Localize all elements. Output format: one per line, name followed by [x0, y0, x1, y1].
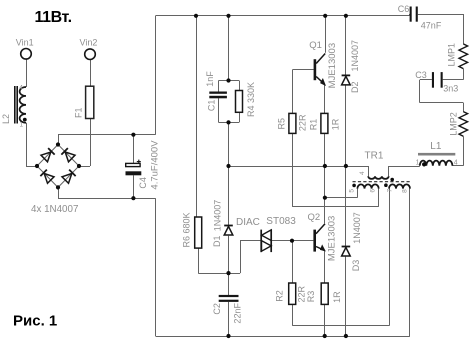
svg-text:4: 4: [454, 160, 458, 167]
svg-text:Рис. 1: Рис. 1: [13, 313, 57, 330]
svg-text:1R: 1R: [332, 291, 342, 303]
svg-text:4: 4: [19, 84, 23, 91]
svg-text:C1: C1: [207, 100, 217, 112]
svg-text:6: 6: [370, 189, 377, 193]
svg-text:R4 330K: R4 330K: [246, 82, 256, 117]
svg-text:D2: D2: [350, 81, 360, 93]
svg-text:11Вт.: 11Вт.: [35, 9, 72, 26]
svg-text:LMP1: LMP1: [446, 43, 456, 67]
svg-text:LMP2: LMP2: [448, 112, 458, 136]
svg-text:3n3: 3n3: [443, 83, 458, 93]
svg-text:1nF: 1nF: [205, 71, 215, 87]
svg-text:L1: L1: [430, 141, 442, 152]
svg-text:R5: R5: [276, 118, 286, 130]
svg-text:R1: R1: [308, 119, 318, 131]
svg-text:R2: R2: [275, 290, 285, 302]
svg-text:Q2: Q2: [308, 212, 321, 223]
svg-text:1: 1: [416, 160, 420, 167]
svg-text:C4: C4: [138, 177, 148, 189]
svg-text:1N4007: 1N4007: [213, 200, 223, 232]
svg-text:1: 1: [20, 121, 24, 128]
svg-text:1N4007: 1N4007: [352, 212, 362, 244]
svg-text:1R: 1R: [331, 118, 341, 130]
svg-text:C2: C2: [212, 303, 222, 315]
svg-text:DIAC: DIAC: [236, 217, 260, 228]
svg-text:22R: 22R: [297, 285, 307, 302]
svg-text:1N4007: 1N4007: [350, 40, 360, 72]
svg-text:TR1: TR1: [365, 151, 384, 162]
svg-text:22R: 22R: [297, 114, 307, 131]
svg-text:Vin2: Vin2: [80, 38, 98, 48]
svg-text:D1: D1: [212, 235, 222, 247]
svg-text:C3: C3: [415, 70, 427, 80]
svg-text:4x 1N4007: 4x 1N4007: [31, 204, 78, 215]
svg-text:8: 8: [401, 189, 408, 193]
svg-text:C6: C6: [398, 4, 410, 14]
svg-text:4.7uF/400V: 4.7uF/400V: [150, 140, 161, 190]
svg-text:Vin1: Vin1: [16, 37, 34, 47]
svg-text:R6 680K: R6 680K: [182, 212, 192, 247]
svg-text:D3: D3: [351, 260, 361, 272]
svg-text:22nF: 22nF: [233, 303, 243, 324]
svg-text:MJE13003: MJE13003: [327, 43, 338, 88]
svg-text:MJE13003: MJE13003: [327, 216, 338, 261]
svg-text:5: 5: [348, 189, 355, 193]
svg-text:4: 4: [359, 171, 366, 175]
svg-text:47nF: 47nF: [421, 21, 442, 31]
svg-text:R3: R3: [306, 291, 316, 303]
svg-text:7: 7: [386, 188, 393, 192]
svg-text:L2: L2: [1, 114, 11, 124]
svg-text:F1: F1: [73, 107, 83, 118]
svg-text:Q1: Q1: [309, 40, 322, 51]
svg-text:ST083: ST083: [266, 216, 296, 227]
